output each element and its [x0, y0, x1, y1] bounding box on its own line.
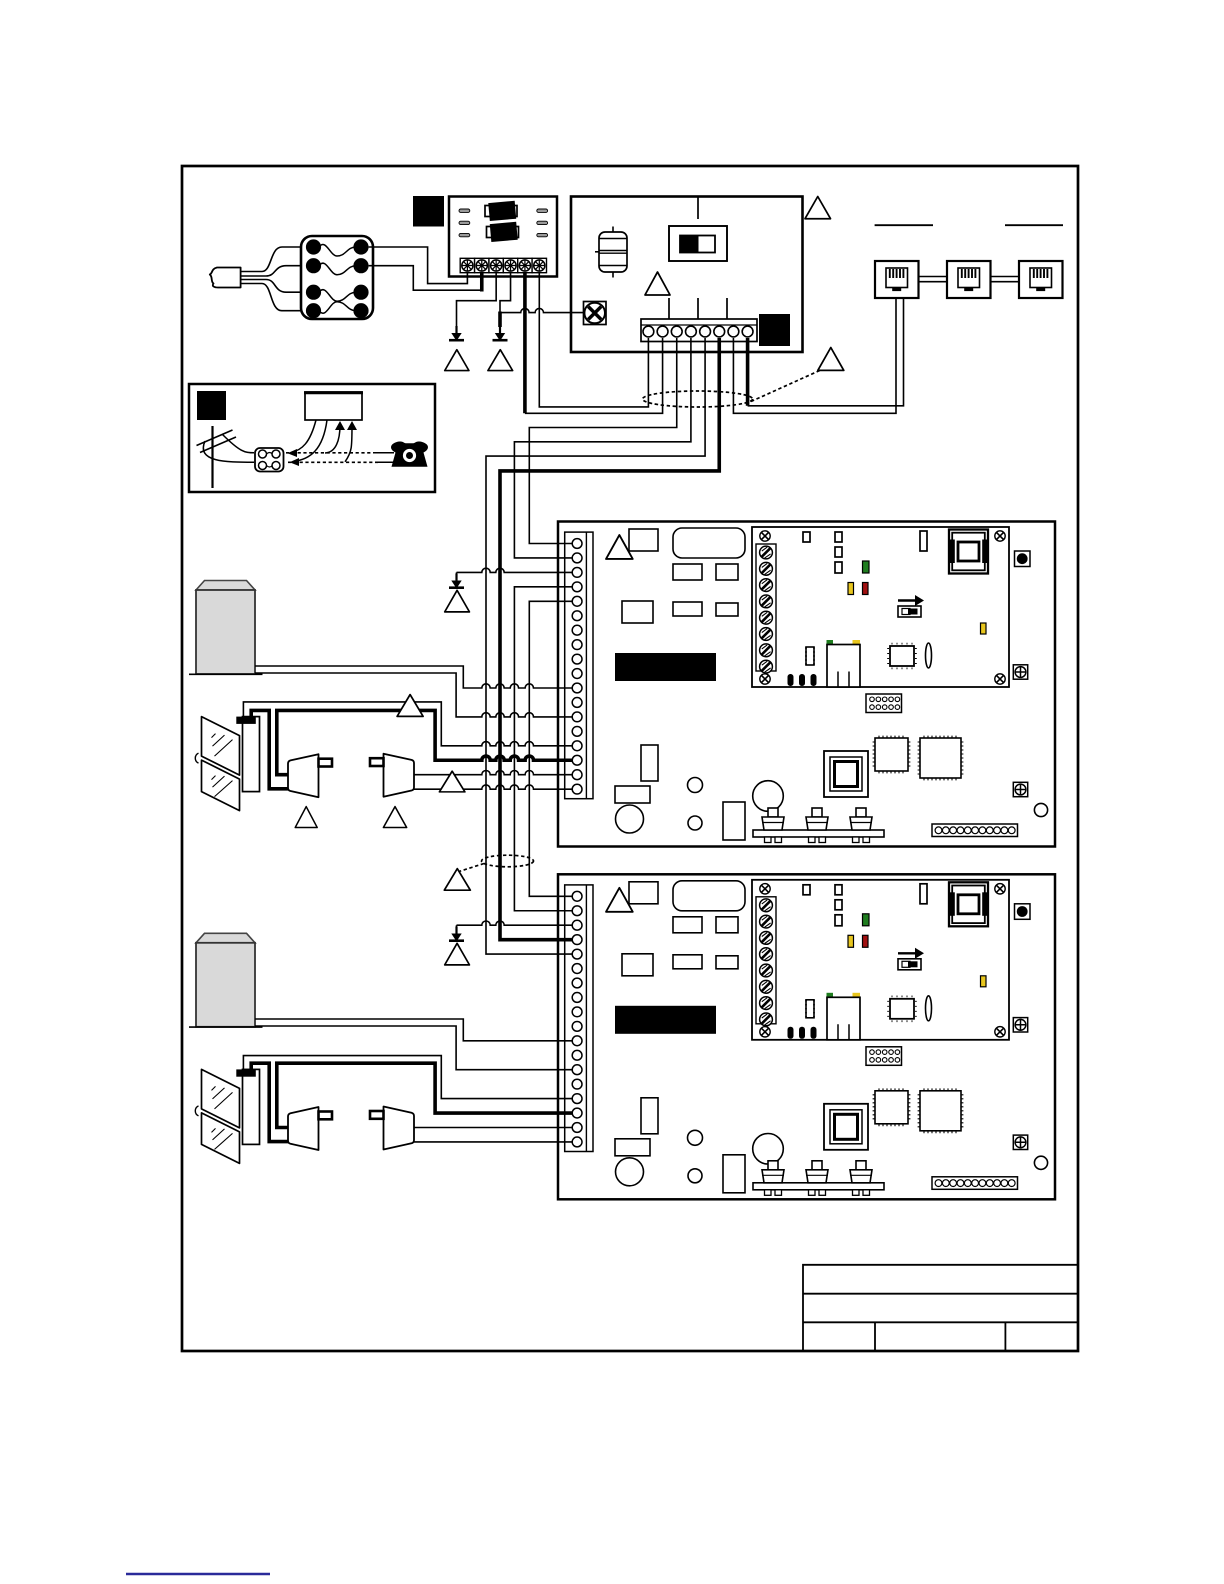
- wire: bell symbol to ground junction (hops): [500, 308, 584, 312]
- warning triangle g2: [488, 350, 513, 371]
- power supply 2 (grey): [189, 933, 263, 1027]
- horn2 wire to module1 row17: [414, 771, 574, 775]
- wire: panel term 8 to RJ jack: [746, 338, 750, 406]
- RJ jack 3: [1019, 261, 1063, 298]
- RJ block in inset: [255, 448, 284, 472]
- cable pair wires to connector block: [241, 247, 306, 311]
- wire: module1 row5 daisy to module2 row1: [529, 601, 573, 896]
- placeholder line right: [1005, 224, 1063, 226]
- wire: panel term 6 to module2 row4 (bold): [500, 338, 719, 940]
- power supply 1 (grey): [189, 581, 263, 675]
- telephone icon: [391, 442, 428, 467]
- arrows up into NI box: [325, 425, 340, 453]
- title block: [803, 1265, 1077, 1351]
- incoming telco cable: [210, 268, 241, 288]
- supply1 wire to module1 row11: [255, 666, 573, 688]
- inset note square: [197, 391, 226, 420]
- jack2-jack3 cord: [991, 277, 1020, 282]
- horn3 wire D (bold) to module2 row16: [277, 1063, 573, 1127]
- curved arrows from NI box to RJ block: [291, 420, 316, 453]
- wire: panel term 7 to RJ jack: [733, 299, 896, 414]
- line-seizure module: [449, 197, 557, 277]
- warning triangle g1: [445, 350, 469, 371]
- horn 2: [370, 754, 414, 797]
- ground symbol 2: [493, 326, 508, 341]
- dashed phone lines: [286, 452, 373, 454]
- horn 1: [288, 754, 332, 797]
- ground symbol 1: [449, 326, 464, 341]
- horn2 wire to module1 row18: [414, 785, 574, 789]
- wire: block dot1 to module T1: [369, 247, 468, 284]
- wire: panel term 5 to module2 row5: [486, 338, 705, 954]
- utility pole: [197, 426, 237, 488]
- triangle at panel top-right: [805, 197, 831, 219]
- door 2: [195, 1069, 259, 1163]
- warning triangle over horn wire: [439, 771, 465, 792]
- wire: panel term 4 to module1 row2: [514, 338, 691, 558]
- wire: T6 to panel terminal 1: [539, 273, 648, 407]
- horn1 wire D (bold) to module1 row16: [277, 710, 573, 774]
- warning triangle horn2: [383, 807, 406, 828]
- panel terminal strip: [641, 319, 757, 342]
- supply2 wire to module2 row13: [255, 1026, 573, 1070]
- horn4 wire to module2 row17: [414, 1127, 574, 1129]
- telco connector block: [301, 236, 373, 319]
- antenna stub line: [697, 197, 699, 220]
- black note square in panel: [759, 314, 790, 346]
- warning triangle module1 ground: [445, 590, 470, 612]
- drawing border frame: [182, 166, 1078, 1351]
- wire: module1 row4 daisy to module2 row2: [514, 587, 573, 911]
- supply1 wire to module1 row13: [255, 673, 573, 717]
- wire: T3 to earth ground: [457, 273, 497, 327]
- placeholder line left: [875, 224, 933, 226]
- note square (black) beside line module: [413, 196, 444, 227]
- door contact 1 wire B (bold) to horn1: [251, 710, 288, 788]
- warning triangle over door wires: [397, 695, 423, 717]
- warning triangle module2 ground: [445, 943, 470, 965]
- control/communicator module 1: [558, 522, 1055, 847]
- triangle note inside panel: [645, 272, 670, 295]
- module1 row3 ground wire (hops): [457, 568, 574, 572]
- dashed leader to triangle: [751, 369, 823, 402]
- RJ jack 1: [875, 261, 919, 298]
- tamper slide switch: [669, 226, 727, 261]
- jack1-jack2 cord: [919, 277, 948, 282]
- warning triangle cable note 1: [818, 348, 844, 371]
- wire: block dot2 to module T2: [369, 266, 482, 291]
- phone cords: [373, 452, 394, 454]
- module terminal screws T1-T6: [460, 258, 474, 272]
- footer page line: [126, 1573, 270, 1575]
- inset diagram box: [189, 384, 435, 492]
- bell output symbol: [584, 302, 607, 325]
- wire: T4 to ground junction: [500, 273, 511, 313]
- transformer coil 2: [487, 227, 519, 238]
- control/communicator module 2: [558, 874, 1055, 1199]
- backup battery: [595, 227, 627, 278]
- door contact 2 wire A to module2 row15: [243, 1056, 573, 1099]
- door 1: [195, 717, 259, 811]
- door contact 1 wire A to module1 row15: [243, 702, 573, 746]
- wire: T5 to panel terminal 2: [523, 273, 527, 413]
- control panel enclosure: [571, 197, 803, 353]
- module2 row3 ground wire (hops): [457, 921, 574, 925]
- ground symbol module2: [449, 927, 464, 942]
- horn 4: [370, 1107, 414, 1150]
- stub lines above terminal strip: [669, 298, 727, 319]
- horn 3: [288, 1107, 332, 1150]
- wire: panel term 3 to module1 row1: [529, 338, 676, 544]
- cable bundle oval 2 (dashed): [482, 855, 534, 867]
- cable bundle oval 1 (dashed): [643, 391, 753, 407]
- dashed leader to triangle 2: [459, 864, 484, 872]
- ground symbol module1: [449, 574, 464, 589]
- warning triangle cable note 2: [444, 869, 470, 891]
- RJ jack 2: [947, 261, 991, 298]
- horn4 wire to module2 row18: [414, 1141, 574, 1143]
- transformer coil 1: [485, 206, 517, 217]
- door contact 2 wire B (bold) to horn3: [251, 1063, 288, 1141]
- pole drop wires: [222, 434, 254, 453]
- network interface rect: [304, 392, 363, 420]
- warning triangle horn1: [295, 807, 317, 828]
- supply2 wire to module2 row11: [255, 1019, 573, 1041]
